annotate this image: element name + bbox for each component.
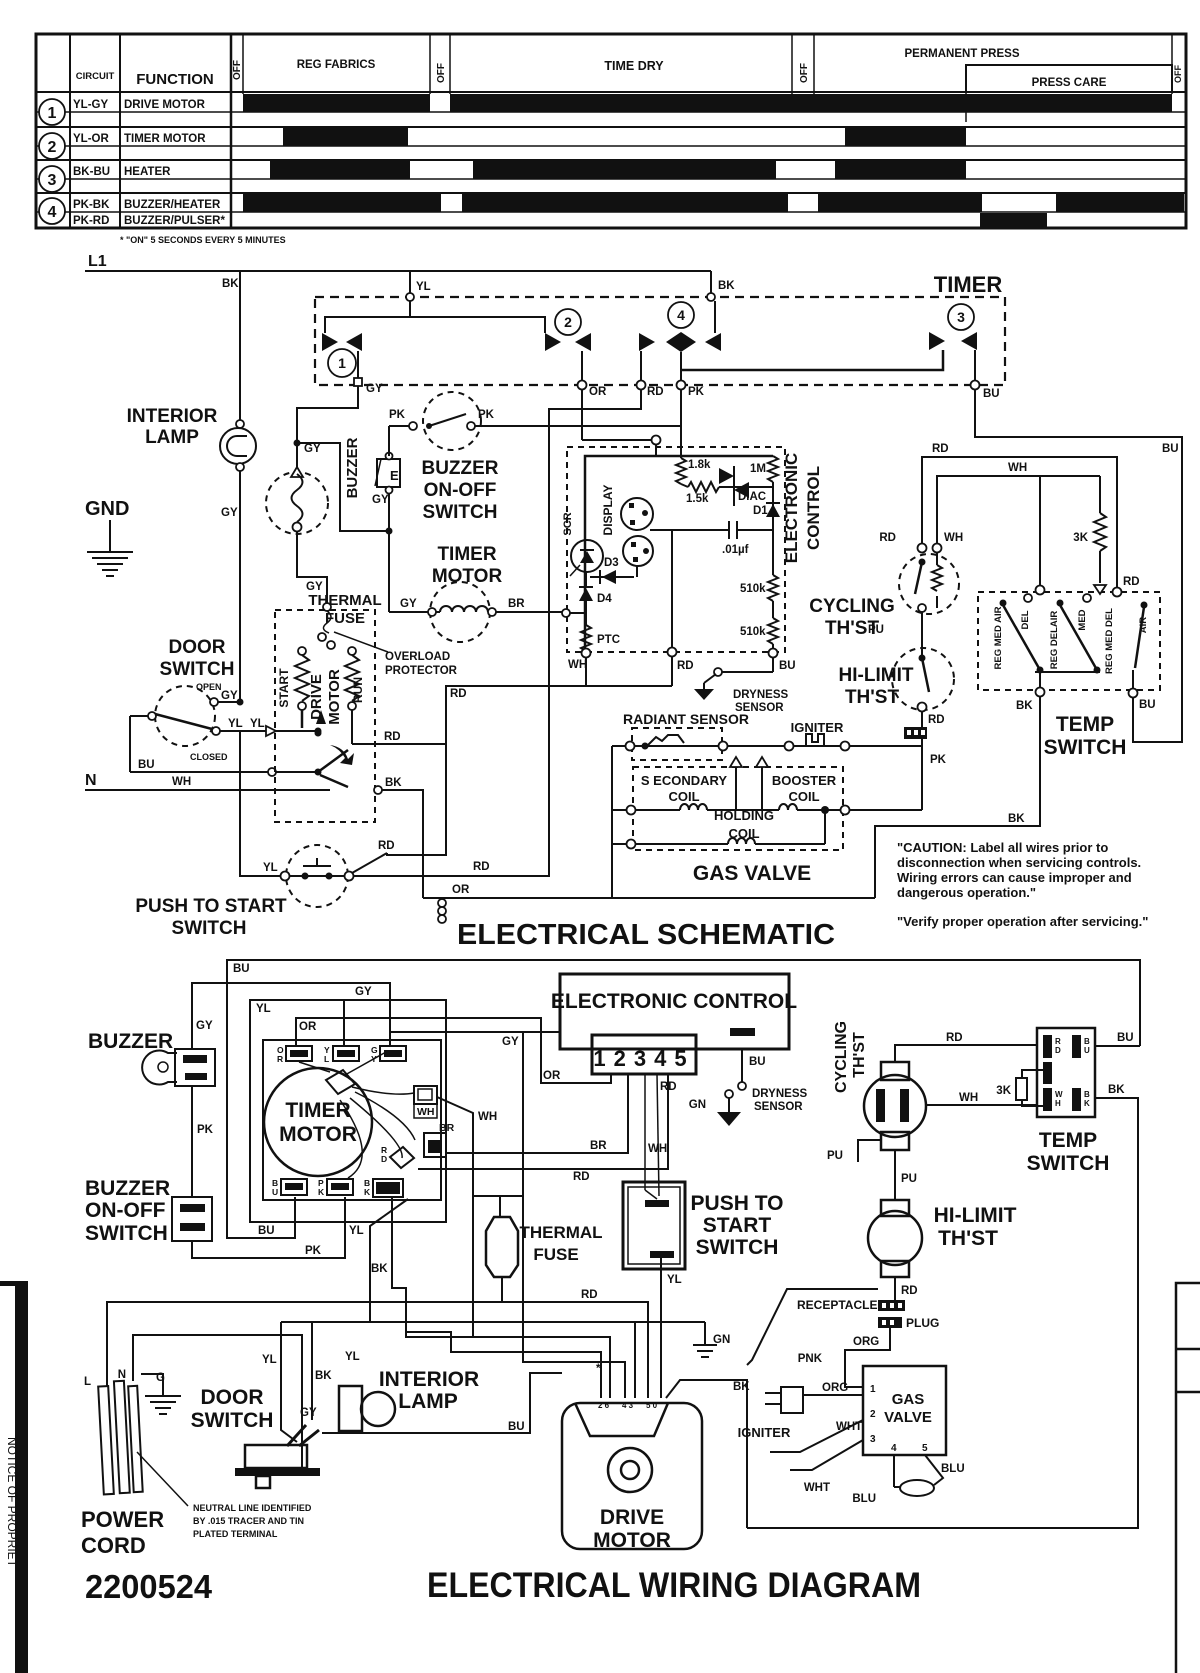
wire YL terminal stub: [343, 1001, 345, 1046]
svg-text:FUSE: FUSE: [533, 1245, 578, 1264]
svg-text:DRYNESS: DRYNESS: [733, 689, 788, 701]
svg-text:BK: BK: [1108, 1084, 1125, 1096]
svg-text:RD: RD: [1123, 576, 1140, 588]
wire BU outer loop: [227, 960, 1140, 1238]
svg-text:YL: YL: [250, 718, 265, 730]
svg-text:WH: WH: [959, 1092, 978, 1104]
timer cam contact 3: [929, 332, 945, 350]
svg-text:SWITCH: SWITCH: [160, 659, 235, 680]
svg-text:RD: RD: [879, 532, 896, 544]
wires into motor terminals: [406, 1322, 610, 1398]
wire BK from motor: [666, 1380, 747, 1528]
svg-text:NEUTRAL LINE IDENTIFIED: NEUTRAL LINE IDENTIFIED: [193, 1503, 312, 1513]
electronic control wiring box: [560, 974, 789, 1049]
svg-text:MED: MED: [1077, 609, 1088, 630]
svg-text:SWITCH: SWITCH: [191, 1409, 274, 1432]
node YL on timer: [406, 293, 414, 301]
gas valve wiring box: [863, 1366, 946, 1455]
svg-text:LAMP: LAMP: [145, 427, 199, 448]
resistor 510k lower: [772, 601, 774, 618]
svg-text:BU: BU: [983, 388, 1000, 400]
svg-text:GY: GY: [221, 507, 238, 519]
svg-text:GY: GY: [196, 1020, 213, 1032]
svg-text:START: START: [703, 1214, 772, 1237]
svg-text:PROTECTOR: PROTECTOR: [385, 665, 458, 677]
svg-text:OFF: OFF: [1173, 65, 1183, 83]
svg-text:GY: GY: [300, 1407, 317, 1419]
svg-text:1.5k: 1.5k: [686, 493, 709, 505]
svg-text:RD: RD: [384, 731, 401, 743]
svg-text:U: U: [1084, 1046, 1090, 1055]
svg-text:PLUG: PLUG: [906, 1316, 939, 1330]
svg-text:WH: WH: [172, 776, 191, 788]
svg-text:510k: 510k: [740, 626, 766, 638]
svg-text:DRYNESS: DRYNESS: [752, 1088, 807, 1100]
svg-text:WH: WH: [1008, 462, 1027, 474]
wire YL long line to door switch: [281, 1321, 705, 1323]
wire GY drop: [473, 1032, 523, 1196]
svg-text:POWER: POWER: [81, 1507, 164, 1532]
svg-text:2: 2: [870, 1409, 876, 1420]
svg-text:GAS VALVE: GAS VALVE: [693, 862, 811, 885]
node BU on timer: [971, 381, 980, 390]
svg-text:BK: BK: [1016, 700, 1033, 712]
svg-text:WH: WH: [568, 659, 587, 671]
wire L line: [107, 1302, 648, 1398]
svg-text:BUZZER/HEATER: BUZZER/HEATER: [124, 199, 221, 211]
svg-text:K: K: [1084, 1099, 1090, 1108]
svg-text:INTERIOR: INTERIOR: [127, 406, 218, 427]
timer cam contact 2: [545, 333, 561, 351]
svg-text:BU: BU: [749, 1056, 766, 1068]
svg-text:U: U: [272, 1187, 278, 1197]
wire BK from motor: [320, 775, 348, 787]
svg-text:YL: YL: [262, 1354, 277, 1366]
svg-text:THERMAL: THERMAL: [519, 1223, 602, 1242]
wire BU from timer to right edge: [975, 389, 1182, 742]
svg-text:K: K: [318, 1187, 325, 1197]
svg-text:TIMER: TIMER: [934, 272, 1003, 297]
svg-text:SENSOR: SENSOR: [754, 1101, 803, 1113]
gas valve left feed: [611, 746, 613, 898]
svg-text:1.8k: 1.8k: [688, 459, 711, 471]
timer motor wiring: [264, 1068, 372, 1176]
svg-text:2 6: 2 6: [598, 1401, 610, 1410]
node GY timer terminal: [354, 378, 362, 386]
svg-text:SWITCH: SWITCH: [1027, 1152, 1110, 1175]
svg-text:2: 2: [48, 139, 57, 156]
svg-text:BU: BU: [1139, 699, 1156, 711]
node RD control: [668, 648, 677, 657]
igniter symbol: [785, 742, 794, 751]
svg-text:N: N: [118, 1369, 126, 1381]
svg-text:4: 4: [677, 307, 685, 323]
svg-text:BUZZER: BUZZER: [421, 458, 498, 479]
svg-text:REG MED AIR: REG MED AIR: [993, 606, 1004, 669]
svg-text:GAS: GAS: [892, 1391, 925, 1408]
svg-text:.01µf: .01µf: [722, 544, 749, 556]
svg-text:12345: 12345: [593, 1046, 694, 1071]
timer dashed box: [315, 297, 1005, 385]
svg-text:RD: RD: [946, 1032, 963, 1044]
wire BU timer to bottom loop: [392, 1197, 406, 1322]
svg-text:BK: BK: [222, 278, 239, 290]
svg-text:IGNITER: IGNITER: [738, 1425, 791, 1440]
svg-text:DISPLAY: DISPLAY: [601, 485, 615, 536]
svg-text:ELECTRONIC: ELECTRONIC: [782, 453, 801, 564]
svg-text:ELECTRONIC CONTROL: ELECTRONIC CONTROL: [551, 990, 797, 1013]
svg-text:BOOSTER: BOOSTER: [772, 773, 837, 788]
ground G power cord: [141, 1374, 163, 1396]
connector plug OR line: [438, 899, 446, 907]
svg-text:L1: L1: [88, 253, 107, 270]
svg-text:PK: PK: [305, 1245, 322, 1257]
svg-text:GY: GY: [221, 690, 238, 702]
svg-text:D1: D1: [753, 505, 768, 517]
svg-text:3: 3: [870, 1434, 876, 1445]
svg-text:BUZZER: BUZZER: [344, 437, 361, 498]
dryness sensor schematic: [772, 657, 774, 672]
svg-text:BU: BU: [1117, 1032, 1134, 1044]
svg-text:OVERLOAD: OVERLOAD: [385, 651, 450, 663]
svg-text:TH'ST: TH'ST: [851, 1032, 868, 1078]
svg-text:RD: RD: [677, 660, 694, 672]
svg-text:PK: PK: [389, 409, 406, 421]
svg-text:YL: YL: [263, 862, 278, 874]
svg-text:RD: RD: [928, 714, 945, 726]
svg-text:RD: RD: [450, 688, 467, 700]
svg-text:WH: WH: [478, 1111, 497, 1123]
svg-text:RD: RD: [901, 1285, 918, 1297]
wire WH from timer: [437, 1097, 473, 1337]
svg-text:BLU: BLU: [852, 1493, 876, 1505]
holding coil: [627, 840, 636, 849]
svg-text:DIAC: DIAC: [738, 491, 766, 503]
booster coil: [779, 804, 797, 810]
svg-text:ELECTRICAL WIRING DIAGRAM: ELECTRICAL WIRING DIAGRAM: [427, 1566, 921, 1605]
svg-text:TIMER: TIMER: [437, 544, 496, 565]
svg-text:DOOR: DOOR: [169, 637, 226, 658]
timer cam contact 4: [640, 351, 642, 381]
svg-text:OFF: OFF: [436, 63, 447, 83]
svg-text:W: W: [1055, 1090, 1063, 1099]
svg-text:OR: OR: [589, 386, 607, 398]
capacitor .01uf: [650, 529, 729, 531]
svg-text:RD: RD: [932, 443, 949, 455]
svg-text:REG MED DEL: REG MED DEL: [1104, 608, 1115, 674]
svg-text:R: R: [1055, 1037, 1061, 1046]
svg-text:GN: GN: [689, 1099, 706, 1111]
wire GY from timer: [297, 386, 358, 470]
wire timer internal bus: [325, 317, 545, 333]
svg-text:LAMP: LAMP: [398, 1390, 458, 1413]
wire PU to hi-limit: [894, 1150, 896, 1200]
svg-text:ELECTRICAL SCHEMATIC: ELECTRICAL SCHEMATIC: [457, 919, 835, 951]
svg-text:START: START: [277, 668, 291, 708]
svg-text:K: K: [364, 1187, 371, 1197]
svg-text:PK-RD: PK-RD: [73, 215, 109, 227]
svg-text:1: 1: [870, 1384, 876, 1395]
resistor 1.8k: [676, 458, 686, 484]
drive motor schematic dashed box: [275, 610, 375, 822]
svg-text:GND: GND: [85, 498, 129, 520]
svg-text:MOTOR: MOTOR: [593, 1529, 671, 1552]
svg-text:BU: BU: [1162, 443, 1179, 455]
svg-text:TIME DRY: TIME DRY: [604, 59, 664, 73]
svg-text:GN: GN: [713, 1334, 730, 1346]
svg-text:3: 3: [48, 172, 57, 189]
svg-text:5: 5: [922, 1443, 928, 1454]
svg-text:* "ON" 5 SECONDS EVERY 5 MINUT: * "ON" 5 SECONDS EVERY 5 MINUTES: [120, 235, 286, 245]
svg-text:BU: BU: [258, 1225, 275, 1237]
svg-text:PK: PK: [930, 754, 947, 766]
svg-text:"CAUTION: Label all wires prio: "CAUTION: Label all wires prior to: [897, 840, 1108, 855]
svg-text:L: L: [84, 1376, 91, 1388]
svg-text:RD: RD: [660, 1081, 677, 1093]
wire BK from temp switch to gas valve: [875, 694, 1040, 898]
wire BK drop to interior lamp: [239, 271, 241, 420]
svg-text:WH: WH: [417, 1106, 435, 1118]
svg-text:Wiring errors can cause improp: Wiring errors can cause improper and: [897, 870, 1132, 885]
svg-text:COIL: COIL: [668, 789, 699, 804]
svg-text:PK-BK: PK-BK: [73, 199, 110, 211]
diode D1: [772, 482, 774, 575]
svg-text:BK: BK: [315, 1370, 332, 1382]
svg-text:MOTOR: MOTOR: [279, 1123, 357, 1146]
temp switch schematic: [978, 592, 1160, 690]
svg-text:OFF: OFF: [799, 63, 810, 83]
svg-text:L: L: [324, 1054, 329, 1064]
svg-text:D4: D4: [597, 593, 612, 605]
svg-text:D3: D3: [604, 557, 619, 569]
svg-text:BU: BU: [779, 660, 796, 672]
svg-text:GY: GY: [355, 986, 372, 998]
svg-text:disconnection when servicing c: disconnection when servicing controls.: [897, 855, 1141, 870]
svg-text:1: 1: [338, 355, 346, 371]
svg-text:YL-GY: YL-GY: [73, 99, 108, 111]
dryness sensor wiring: [730, 1028, 755, 1036]
svg-text:BK: BK: [1008, 813, 1025, 825]
svg-text:R: R: [277, 1054, 283, 1064]
svg-text:WH: WH: [944, 532, 963, 544]
resistor 3K heater: [1099, 476, 1101, 513]
wire BU line: [129, 716, 131, 772]
svg-text:SWITCH: SWITCH: [85, 1222, 168, 1245]
wire RD to cycling thermostat: [922, 457, 1117, 588]
secondary coil: [627, 806, 636, 815]
svg-text:PRESS CARE: PRESS CARE: [1032, 77, 1107, 89]
svg-text:YL: YL: [349, 1225, 364, 1237]
right edge panel: [1176, 1283, 1200, 1673]
svg-text:THERMAL: THERMAL: [308, 592, 381, 609]
node RD on timer: [637, 381, 646, 390]
svg-text:510k: 510k: [740, 583, 766, 595]
diode D4: [585, 572, 587, 588]
resistor 1M: [768, 456, 778, 482]
svg-text:SWITCH: SWITCH: [172, 918, 247, 939]
svg-text:OR: OR: [543, 1070, 561, 1082]
node BU control: [769, 649, 778, 658]
circuit 4 rows: buzzer/heater + buzzer/pulser: [73, 194, 1184, 227]
svg-text:FUNCTION: FUNCTION: [136, 71, 214, 88]
svg-text:IGNITER: IGNITER: [791, 720, 844, 735]
thermal fuse wiring: [486, 1217, 518, 1277]
timer cam contact 1: [322, 333, 338, 351]
wire RD from motor: [351, 710, 353, 744]
svg-text:PUSH TO START: PUSH TO START: [135, 896, 287, 917]
svg-text:COIL: COIL: [788, 789, 819, 804]
svg-text:3: 3: [957, 309, 965, 325]
diac D2: [719, 486, 773, 488]
wire BK to door switch: [311, 1322, 313, 1420]
svg-text:ON-OFF: ON-OFF: [424, 480, 497, 501]
press care sub-header box: [966, 65, 1172, 122]
svg-text:WHT: WHT: [804, 1482, 830, 1494]
svg-text:PTC: PTC: [597, 634, 620, 646]
wire PU cycling stub: [858, 1140, 881, 1162]
svg-text:PU: PU: [827, 1150, 843, 1162]
svg-text:H: H: [1055, 1099, 1061, 1108]
wire YL diag from timer: [370, 1199, 408, 1322]
svg-text:TH'ST: TH'ST: [845, 687, 900, 708]
svg-text:PNK: PNK: [798, 1353, 823, 1365]
svg-text:RD: RD: [473, 861, 490, 873]
node OR into control: [652, 436, 661, 445]
svg-text:OR: OR: [299, 1021, 317, 1033]
wire WH drop to temp switch: [1039, 476, 1041, 586]
wire timer to contact 3: [681, 350, 943, 370]
svg-text:3K: 3K: [1073, 532, 1088, 544]
svg-text:PUSH TO: PUSH TO: [691, 1192, 784, 1215]
resistor 1.5k: [681, 484, 688, 487]
svg-text:BK-BU: BK-BU: [73, 166, 110, 178]
svg-text:BU: BU: [138, 759, 155, 771]
svg-text:RD: RD: [573, 1171, 590, 1183]
wire receptacle diagonal to BK: [747, 1289, 878, 1365]
svg-text:S ECONDARY: S ECONDARY: [641, 773, 728, 788]
svg-text:GY: GY: [372, 494, 389, 506]
svg-text:BU: BU: [233, 963, 250, 975]
svg-text:YL: YL: [256, 1003, 271, 1015]
svg-text:PU: PU: [868, 624, 884, 636]
ground GN wiring: [704, 1322, 706, 1345]
wire PK to electronic control: [475, 425, 681, 427]
svg-text:N: N: [85, 772, 97, 789]
wire GY loop buzzer to control: [192, 983, 390, 1049]
svg-text:BY .015 TRACER AND TIN: BY .015 TRACER AND TIN: [193, 1516, 304, 1526]
timer spokes: [352, 1087, 414, 1094]
electronic control dashed box: [567, 447, 785, 652]
push to start switch wiring: [623, 1182, 685, 1269]
svg-text:GY: GY: [304, 443, 321, 455]
overload protector: [323, 611, 331, 633]
timer WH terminal: [414, 1086, 437, 1104]
svg-text:HI-LIMIT: HI-LIMIT: [839, 665, 914, 686]
svg-text:DEL: DEL: [1020, 610, 1031, 629]
receptacle plug schematic: [904, 727, 927, 739]
wire door switch GY to lamp: [218, 701, 240, 703]
svg-text:VALVE: VALVE: [884, 1409, 932, 1426]
svg-text:YL: YL: [416, 281, 431, 293]
node OR on timer: [578, 381, 587, 390]
circuit 1 row: drive motor: [73, 94, 1172, 112]
svg-text:RD: RD: [647, 386, 664, 398]
wire BR into control: [562, 609, 570, 617]
svg-text:RADIANT SENSOR: RADIANT SENSOR: [623, 711, 749, 727]
svg-text:BK: BK: [385, 777, 402, 789]
wire RD from push-to-start to control: [353, 389, 641, 876]
buzzer on-off switch: [388, 426, 390, 456]
wire WHT gas valve: [770, 1420, 863, 1452]
circled row numbers: [39, 99, 65, 224]
svg-text:GY: GY: [366, 383, 383, 395]
svg-text:CLOSED: CLOSED: [190, 752, 228, 762]
svg-text:PLATED TERMINAL: PLATED TERMINAL: [193, 1529, 278, 1539]
wire BLU pin4 fuse link: [893, 1455, 895, 1487]
svg-text:dangerous operation.": dangerous operation.": [897, 885, 1036, 900]
svg-text:YL: YL: [228, 718, 243, 730]
wire L1 rail: [85, 270, 711, 272]
svg-text:ON-OFF: ON-OFF: [85, 1199, 166, 1222]
svg-text:WHT: WHT: [836, 1421, 862, 1433]
control inner rail: [585, 456, 773, 653]
svg-text:BR: BR: [508, 598, 525, 610]
wire BU door switch to motor: [322, 1373, 562, 1433]
svg-text:OPEN: OPEN: [196, 682, 222, 692]
svg-text:BUZZER/PULSER*: BUZZER/PULSER*: [124, 215, 225, 227]
svg-text:BUZZER: BUZZER: [85, 1177, 170, 1200]
timer wiring outer box: [250, 1000, 446, 1222]
svg-text:4: 4: [891, 1443, 897, 1454]
svg-text:MOTOR: MOTOR: [326, 669, 343, 725]
svg-text:YL-OR: YL-OR: [73, 133, 109, 145]
svg-text:RD: RD: [378, 840, 395, 852]
svg-text:PU: PU: [901, 1173, 917, 1185]
svg-text:DRIVE: DRIVE: [308, 674, 325, 720]
temp switch wiring box: [1037, 1028, 1095, 1117]
svg-text:WH: WH: [648, 1143, 667, 1155]
node BK on timer: [707, 293, 715, 301]
svg-text:REG FABRICS: REG FABRICS: [297, 59, 376, 71]
svg-text:GY: GY: [502, 1036, 519, 1048]
svg-text:INTERIOR: INTERIOR: [379, 1368, 479, 1391]
svg-text:PERMANENT PRESS: PERMANENT PRESS: [904, 48, 1019, 60]
svg-text:*: *: [596, 1363, 601, 1375]
svg-text:TEMP: TEMP: [1056, 713, 1114, 736]
svg-text:PK: PK: [197, 1124, 214, 1136]
svg-text:4 3: 4 3: [622, 1401, 634, 1410]
wire WH to heater network: [937, 476, 1100, 544]
timer connector diamond: [326, 1070, 355, 1094]
svg-text:NOTICE OF PROPRIET: NOTICE OF PROPRIET: [5, 1437, 19, 1568]
svg-text:2200524: 2200524: [85, 1568, 213, 1605]
wire WH cycling to temp switch: [926, 1104, 1037, 1106]
svg-text:"Verify proper operation after: "Verify proper operation after servicing…: [897, 914, 1148, 929]
svg-text:BU: BU: [508, 1421, 525, 1433]
svg-text:GY: GY: [400, 598, 417, 610]
svg-text:SWITCH: SWITCH: [696, 1236, 779, 1259]
svg-text:DRIVE MOTOR: DRIVE MOTOR: [124, 99, 206, 111]
svg-text:REG DELAIR: REG DELAIR: [1049, 611, 1060, 670]
svg-text:HEATER: HEATER: [124, 166, 171, 178]
wire RD from control: [418, 1074, 668, 1169]
wire WH from control to start switch: [644, 1074, 646, 1190]
wire YL from door switch: [220, 730, 266, 732]
wire WH from control bottom: [585, 657, 587, 686]
svg-text:DOOR: DOOR: [201, 1386, 264, 1409]
svg-text:SWITCH: SWITCH: [423, 502, 498, 523]
wire YL drop to timer: [409, 271, 411, 293]
